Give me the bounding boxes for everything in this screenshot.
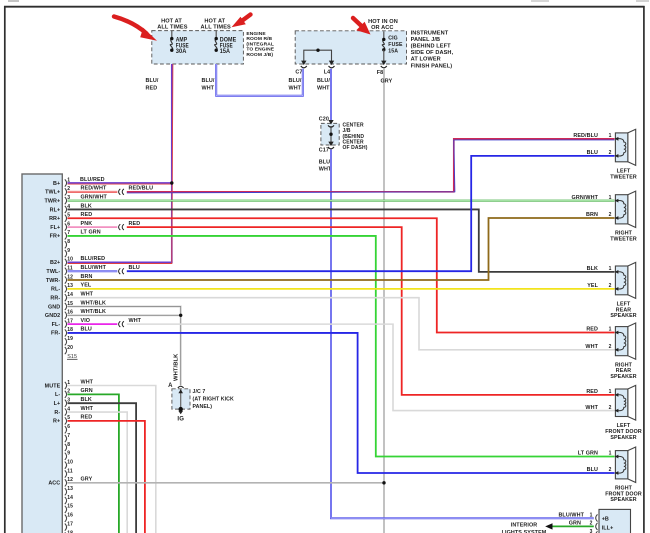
pin 20 section 1 — [65, 345, 73, 354]
svg-text:AT LOWER: AT LOWER — [411, 57, 441, 63]
pin 11 section 2 — [65, 468, 73, 477]
pin 2 left rear speaker — [609, 283, 612, 289]
svg-text:BLU/RED: BLU/RED — [80, 177, 105, 183]
svg-text:RED/WHT: RED/WHT — [81, 186, 107, 192]
svg-text:C20: C20 — [319, 116, 329, 122]
label HOT AT ALL TIMES (AMP fuse) — [157, 19, 187, 31]
svg-text:2: 2 — [609, 283, 612, 289]
svg-text:PNK: PNK — [81, 221, 93, 227]
svg-text:TWEETER: TWEETER — [610, 236, 637, 242]
svg-text:11: 11 — [67, 468, 73, 474]
svg-text:TO ENGINE: TO ENGINE — [246, 47, 274, 53]
svg-text:17: 17 — [67, 521, 73, 527]
svg-text:(INTEGRAL: (INTEGRAL — [246, 41, 274, 47]
node IG — [177, 416, 184, 422]
pin 18 section 1 — [51, 327, 73, 337]
svg-text:F8: F8 — [377, 70, 384, 76]
svg-text:16: 16 — [67, 513, 73, 519]
svg-text:WHT/BLK: WHT/BLK — [81, 309, 107, 315]
svg-text:1: 1 — [609, 195, 612, 201]
svg-text:WHT/BLK: WHT/BLK — [81, 300, 107, 306]
svg-text:TWL-: TWL- — [46, 269, 60, 275]
wire pin14 WHT to right rear speaker pin2 — [68, 291, 615, 349]
wire pin17 VIO — [68, 318, 118, 324]
label J/C7 — [193, 389, 235, 410]
wire WHT to left front door speaker pin2 — [127, 318, 615, 411]
label engine room R/B — [246, 31, 274, 58]
connector C7 — [295, 61, 306, 76]
svg-text:FR-: FR- — [51, 331, 60, 337]
svg-text:20: 20 — [67, 345, 73, 351]
svg-text:WHT: WHT — [585, 405, 598, 411]
svg-text:GRN: GRN — [569, 521, 581, 527]
pin 3 interior — [590, 529, 598, 533]
label RED at left front door speaker — [586, 389, 598, 395]
wire BLU to left tweeter pin2 — [127, 156, 615, 271]
wire GRN from interior lights (arrow to interior lights system) — [545, 521, 594, 530]
svg-text:BLK: BLK — [81, 203, 92, 209]
svg-text:8: 8 — [67, 442, 70, 448]
svg-text:WHT/BLK: WHT/BLK — [173, 353, 179, 381]
svg-text:WHT: WHT — [289, 86, 302, 92]
connector L4 — [324, 61, 335, 76]
svg-text:WHT: WHT — [585, 344, 598, 350]
pin 1 right front door speaker — [609, 451, 612, 457]
svg-text:B+: B+ — [53, 181, 60, 187]
speaker left front door — [615, 385, 636, 420]
svg-text:15A: 15A — [388, 49, 398, 55]
pin 7 section 1 — [50, 230, 71, 240]
svg-text:BLK: BLK — [81, 397, 92, 403]
svg-text:ROOM R/B: ROOM R/B — [246, 36, 272, 42]
wire pin4 BLK to left rear speaker pin1 — [68, 203, 615, 272]
pin 3 section 1 — [44, 195, 70, 205]
label BLU/WHT interior — [558, 512, 584, 518]
svg-text:RED: RED — [586, 327, 598, 333]
pin 1 section 2 — [45, 380, 71, 390]
speaker right tweeter — [615, 191, 636, 227]
svg-text:OR ACC: OR ACC — [371, 25, 393, 31]
wire mute pin1 WHT — [68, 379, 156, 533]
inline connector pin2 — [119, 189, 124, 195]
svg-text:BLK: BLK — [587, 266, 598, 272]
svg-text:INSTRUMENT: INSTRUMENT — [411, 30, 449, 36]
svg-text:INTERIOR: INTERIOR — [511, 522, 538, 528]
svg-text:WHT: WHT — [81, 406, 94, 412]
pin 16 section 2 — [65, 513, 73, 522]
svg-text:BLU: BLU — [81, 327, 92, 333]
pin 2 right rear speaker — [609, 344, 612, 350]
svg-text:9: 9 — [67, 451, 70, 457]
svg-text:RL+: RL+ — [50, 207, 61, 213]
svg-text:1: 1 — [590, 512, 593, 518]
label INTERIOR LIGHTS SYSTEM — [502, 522, 547, 533]
pin 2 right tweeter — [609, 212, 612, 218]
pin 2 left front door speaker — [609, 405, 612, 411]
label GRN/WHT at right tweeter — [572, 195, 599, 201]
svg-text:SPEAKER: SPEAKER — [610, 435, 636, 441]
svg-text:PANEL J/B: PANEL J/B — [411, 37, 441, 43]
wire pin3 GRN/WHT to right tweeter pin1 — [68, 194, 615, 200]
pin 17 section 2 — [65, 521, 73, 530]
svg-text:BLU/: BLU/ — [146, 78, 159, 84]
speaker left rear — [615, 262, 636, 298]
pin 4 section 1 — [50, 204, 71, 214]
pin 3 section 2 — [54, 398, 71, 408]
wire pin5 RED — [68, 415, 145, 533]
label GRY (F8 drop) — [381, 78, 393, 84]
svg-text:15A: 15A — [220, 48, 230, 55]
svg-text:FL-: FL- — [52, 322, 61, 328]
svg-text:RED: RED — [146, 86, 158, 92]
pin 7 section 2 — [65, 433, 71, 442]
svg-text:ILL+: ILL+ — [602, 526, 614, 532]
svg-text:LT GRN: LT GRN — [578, 451, 598, 457]
fuse DOME 15A — [215, 31, 237, 56]
wire BLU/WHT from DOME fuse to C7 — [216, 64, 303, 96]
svg-text:RED: RED — [586, 389, 598, 395]
label RED/BLU at left tweeter — [573, 133, 598, 139]
svg-text:1: 1 — [609, 389, 612, 395]
svg-text:ALL TIMES: ALL TIMES — [201, 24, 231, 30]
interior lights system box — [599, 509, 631, 533]
instrument panel J/B junction box — [295, 31, 406, 64]
wire pin2 GRN — [68, 388, 119, 533]
svg-text:RL-: RL- — [51, 287, 60, 293]
svg-text:GRN/WHT: GRN/WHT — [81, 194, 108, 200]
svg-text:7: 7 — [67, 433, 70, 439]
svg-text:2: 2 — [609, 405, 612, 411]
connector C17 — [319, 142, 334, 154]
svg-text:2: 2 — [609, 150, 612, 156]
label YEL at left rear speaker — [587, 283, 598, 289]
connector block radio/amplifier — [22, 174, 62, 533]
wire pin18 BLU to right front door speaker pin2 — [68, 327, 615, 473]
junction pin1/BLU-RED — [170, 181, 173, 184]
svg-text:GRN: GRN — [81, 388, 93, 394]
pin 2 section 2 — [55, 389, 70, 399]
pin 17 section 1 — [52, 318, 74, 328]
svg-text:ALL TIMES: ALL TIMES — [157, 24, 187, 30]
pin 14 section 1 — [50, 292, 73, 302]
svg-text:TWR-: TWR- — [46, 278, 61, 284]
svg-text:BLU/WHT: BLU/WHT — [558, 512, 584, 518]
node S15 — [67, 354, 78, 360]
inline connector pin17 — [119, 321, 124, 327]
svg-text:YEL: YEL — [587, 283, 598, 289]
svg-text:MUTE: MUTE — [45, 383, 61, 389]
wire J/C7 internal — [178, 389, 183, 408]
svg-text:TWL+: TWL+ — [45, 190, 60, 196]
svg-text:L+: L+ — [54, 401, 61, 407]
wire pin16 WHT/BLK to J/C7 — [68, 309, 181, 385]
svg-text:TWEETER: TWEETER — [610, 174, 637, 180]
svg-text:GRY: GRY — [381, 78, 393, 84]
wire pin11 BLU/WHT — [68, 265, 118, 271]
svg-text:1: 1 — [609, 133, 612, 139]
svg-text:WHT: WHT — [81, 379, 94, 385]
pin 12 section 2 — [48, 477, 73, 487]
svg-text:WHT: WHT — [81, 291, 94, 297]
pin 5 section 2 — [53, 415, 70, 425]
wire pin3 BLK — [68, 397, 137, 533]
fuse AMP 30A — [170, 31, 189, 56]
pin 16 section 1 — [45, 310, 73, 320]
pin 1 left tweeter — [609, 133, 612, 139]
svg-text:(AT RIGHT KICK: (AT RIGHT KICK — [193, 397, 235, 403]
pin 1 right rear speaker — [609, 327, 612, 333]
pin 1 left rear speaker — [609, 266, 612, 272]
pin 19 section 1 — [65, 336, 73, 345]
pin 15 section 2 — [65, 504, 73, 513]
pin 2 left tweeter — [609, 150, 612, 156]
label BLU/WHT (dome drop) — [202, 78, 215, 92]
wire BLU/WHT from L4 to C20 — [330, 69, 332, 121]
svg-text:B2+: B2+ — [50, 260, 60, 266]
label BLK at left rear speaker — [587, 266, 598, 272]
svg-text:BLU: BLU — [587, 467, 598, 473]
label RED at right rear speaker — [586, 327, 598, 333]
pin 6 section 1 — [50, 221, 70, 231]
wire BLU/WHT from C17 to interior lights +B — [331, 150, 594, 519]
label BLU/WHT (L4 drop) — [317, 78, 330, 92]
pin 2 section 1 — [45, 186, 70, 196]
svg-text:1: 1 — [67, 177, 70, 183]
svg-text:WHT: WHT — [202, 86, 215, 92]
pin 10 section 1 — [50, 257, 73, 267]
pin 8 section 2 — [65, 442, 71, 451]
label center J/B — [343, 123, 368, 151]
svg-text:1: 1 — [609, 451, 612, 457]
inline connector pin6 — [119, 224, 124, 230]
svg-text:BRN: BRN — [81, 274, 93, 280]
svg-text:RR-: RR- — [50, 295, 60, 301]
svg-text:RR+: RR+ — [49, 216, 60, 222]
wire pin5 RED to right rear speaker pin1 — [68, 212, 615, 332]
pin 9 section 1 — [65, 248, 71, 257]
svg-text:2: 2 — [590, 521, 593, 527]
svg-text:+B: +B — [602, 517, 609, 523]
svg-text:RED/BLU: RED/BLU — [573, 133, 598, 139]
label LT GRN at right front door speaker — [578, 451, 598, 457]
svg-text:BLU/: BLU/ — [289, 78, 302, 84]
wire pin13 YEL to left rear speaker pin2 — [68, 283, 615, 289]
wire instrument J/B internal C7-L4 bus — [304, 50, 332, 64]
svg-text:SPEAKER: SPEAKER — [610, 497, 636, 503]
pin 9 section 2 — [65, 451, 71, 460]
svg-text:BLU/WHT: BLU/WHT — [81, 265, 107, 271]
svg-text:BLU/: BLU/ — [317, 78, 330, 84]
svg-text:L4: L4 — [324, 70, 331, 76]
svg-text:FUSE: FUSE — [388, 42, 403, 48]
label HOT AT ALL TIMES (DOME fuse) — [201, 19, 231, 31]
svg-text:L-: L- — [55, 392, 60, 398]
wire center J/B internal — [330, 126, 332, 143]
svg-text:GND2: GND2 — [45, 313, 60, 319]
pin 18 section 2 — [65, 530, 73, 533]
svg-text:YEL: YEL — [81, 283, 92, 289]
svg-text:ROOM J/B): ROOM J/B) — [246, 52, 273, 58]
junction GRY — [382, 481, 385, 484]
junction pin15/pin16 — [179, 314, 182, 317]
engine room R/B junction box — [152, 31, 244, 64]
label WHT/BLK vertical — [173, 353, 179, 381]
junction center J/B dot — [329, 133, 332, 136]
label BLU at left tweeter — [587, 150, 598, 156]
wire pin7 LT GRN to right front door speaker pin1 — [68, 230, 615, 457]
svg-text:2: 2 — [609, 467, 612, 473]
pin 5 section 1 — [49, 213, 70, 223]
svg-text:6: 6 — [67, 424, 70, 430]
svg-text:BLU: BLU — [129, 265, 140, 271]
svg-text:FL+: FL+ — [50, 225, 60, 231]
svg-text:BLU/: BLU/ — [202, 78, 215, 84]
junction J/C7 IG dot — [178, 407, 183, 414]
svg-text:2: 2 — [609, 212, 612, 218]
svg-text:IG: IG — [177, 416, 184, 422]
pin 1 left front door speaker — [609, 389, 612, 395]
connector C20 — [319, 116, 334, 127]
wire pin6 PNK — [68, 221, 118, 227]
svg-text:13: 13 — [67, 486, 73, 492]
svg-text:RED: RED — [129, 221, 141, 227]
svg-text:VIO: VIO — [81, 318, 91, 324]
pin 4 section 2 — [54, 406, 70, 416]
svg-text:RED: RED — [81, 415, 93, 421]
pin 14 section 2 — [65, 495, 73, 504]
svg-text:SPEAKER: SPEAKER — [610, 313, 636, 319]
svg-text:R-: R- — [54, 410, 60, 416]
wire pin10 BLU/RED label — [81, 256, 106, 262]
svg-text:FR+: FR+ — [50, 234, 61, 240]
svg-text:1: 1 — [609, 266, 612, 272]
label instrument panel J/B — [411, 30, 454, 69]
wire BLU/RED from AMP fuse to pins 1 and 10 — [68, 64, 173, 264]
svg-text:1: 1 — [609, 327, 612, 333]
pin 8 section 1 — [65, 239, 71, 248]
pin 10 section 2 — [65, 459, 73, 468]
svg-text:14: 14 — [67, 495, 73, 501]
svg-text:RED/BLU: RED/BLU — [129, 186, 154, 192]
pin 13 section 2 — [65, 486, 73, 495]
pin 15 section 1 — [48, 301, 73, 311]
svg-text:C7: C7 — [295, 70, 302, 76]
connector F8 — [377, 61, 387, 77]
svg-text:OF DASH): OF DASH) — [343, 145, 368, 151]
wire RED to left front door speaker pin1 — [127, 221, 615, 395]
svg-text:TWR+: TWR+ — [44, 198, 60, 204]
junction internal bus dot — [316, 49, 319, 52]
pin 12 section 1 — [46, 274, 73, 284]
svg-text:15: 15 — [67, 504, 73, 510]
junction connector J/C7 — [172, 389, 190, 409]
inline connector pin11 — [119, 268, 124, 274]
svg-text:RED: RED — [81, 212, 93, 218]
svg-text:CIG: CIG — [388, 36, 398, 42]
label WHT at left front door speaker — [585, 405, 598, 411]
svg-text:GRN/WHT: GRN/WHT — [572, 195, 599, 201]
svg-text:19: 19 — [67, 336, 73, 342]
svg-text:FINISH PANEL): FINISH PANEL) — [411, 63, 453, 69]
label BLU/WHT (C17 drop) — [319, 159, 332, 172]
svg-text:LT GRN: LT GRN — [81, 230, 101, 236]
svg-text:PANEL): PANEL) — [193, 404, 213, 410]
svg-text:J/C 7: J/C 7 — [193, 389, 206, 395]
wire pin12 GRY to F8 gray — [68, 477, 385, 483]
svg-text:30A: 30A — [176, 48, 187, 55]
svg-text:8: 8 — [67, 239, 70, 245]
svg-text:3: 3 — [590, 529, 593, 533]
svg-text:ENGINE: ENGINE — [246, 31, 266, 37]
svg-text:R+: R+ — [53, 419, 60, 425]
svg-text:2: 2 — [609, 344, 612, 350]
pin 13 section 1 — [51, 283, 73, 293]
wire pin4 WHT — [68, 406, 128, 533]
svg-text:SPEAKER: SPEAKER — [610, 374, 636, 380]
wire GRY from F8 down — [383, 69, 385, 533]
red arrow 2 (dome fuse) — [232, 15, 251, 28]
svg-text:A: A — [168, 383, 173, 389]
label HOT IN ON OR ACC (CIG fuse) — [368, 19, 398, 31]
svg-text:SIDE OF DASH,: SIDE OF DASH, — [411, 50, 454, 56]
pin 11 section 1 — [46, 266, 72, 276]
svg-text:GRY: GRY — [81, 477, 93, 483]
label BLU/WHT (C7 drop) — [289, 78, 302, 92]
label BRN at right tweeter — [586, 212, 598, 218]
label BLU/RED (fuse drop) — [146, 78, 159, 92]
pin 1 right tweeter — [609, 195, 612, 201]
wire pin12 BRN to right tweeter pin2 — [68, 218, 615, 280]
pin 2 interior ILL+ — [590, 521, 614, 532]
label WHT at right rear speaker — [585, 344, 598, 350]
svg-text:GND: GND — [48, 304, 60, 310]
label pin1 BLU/RED — [80, 177, 105, 183]
speaker right front door — [615, 447, 636, 483]
wire RED/BLU to left tweeter pin1 — [127, 139, 615, 193]
svg-text:BLU: BLU — [587, 150, 598, 156]
svg-text:BRN: BRN — [586, 212, 598, 218]
svg-text:(BEHIND LEFT: (BEHIND LEFT — [411, 44, 452, 50]
center J/B junction box — [321, 123, 339, 145]
wire pin2 RED/WHT — [68, 186, 118, 192]
node A — [168, 383, 184, 389]
svg-text:WHT: WHT — [129, 318, 142, 324]
svg-text:9: 9 — [67, 248, 70, 254]
red arrow 3 (instrument panel box) — [353, 18, 371, 35]
svg-text:WHT: WHT — [317, 86, 330, 92]
label BLU at right front door speaker — [587, 467, 598, 473]
svg-text:ACC: ACC — [48, 481, 60, 487]
speaker left tweeter — [615, 129, 636, 165]
svg-text:10: 10 — [67, 257, 73, 263]
pin 1 section 1 — [53, 177, 70, 187]
fuse CIG 15A — [382, 31, 403, 61]
svg-text:10: 10 — [67, 459, 73, 465]
speaker right rear — [615, 323, 636, 359]
svg-text:BLU/RED: BLU/RED — [81, 256, 106, 262]
pin 2 right front door speaker — [609, 467, 612, 473]
pin 1 interior +B — [590, 512, 609, 522]
pin 6 section 2 — [65, 424, 71, 433]
red arrow 1 (engine room box) — [114, 17, 157, 41]
wire pin15 WHT/BLK — [68, 300, 181, 315]
svg-text:C17: C17 — [319, 147, 329, 153]
